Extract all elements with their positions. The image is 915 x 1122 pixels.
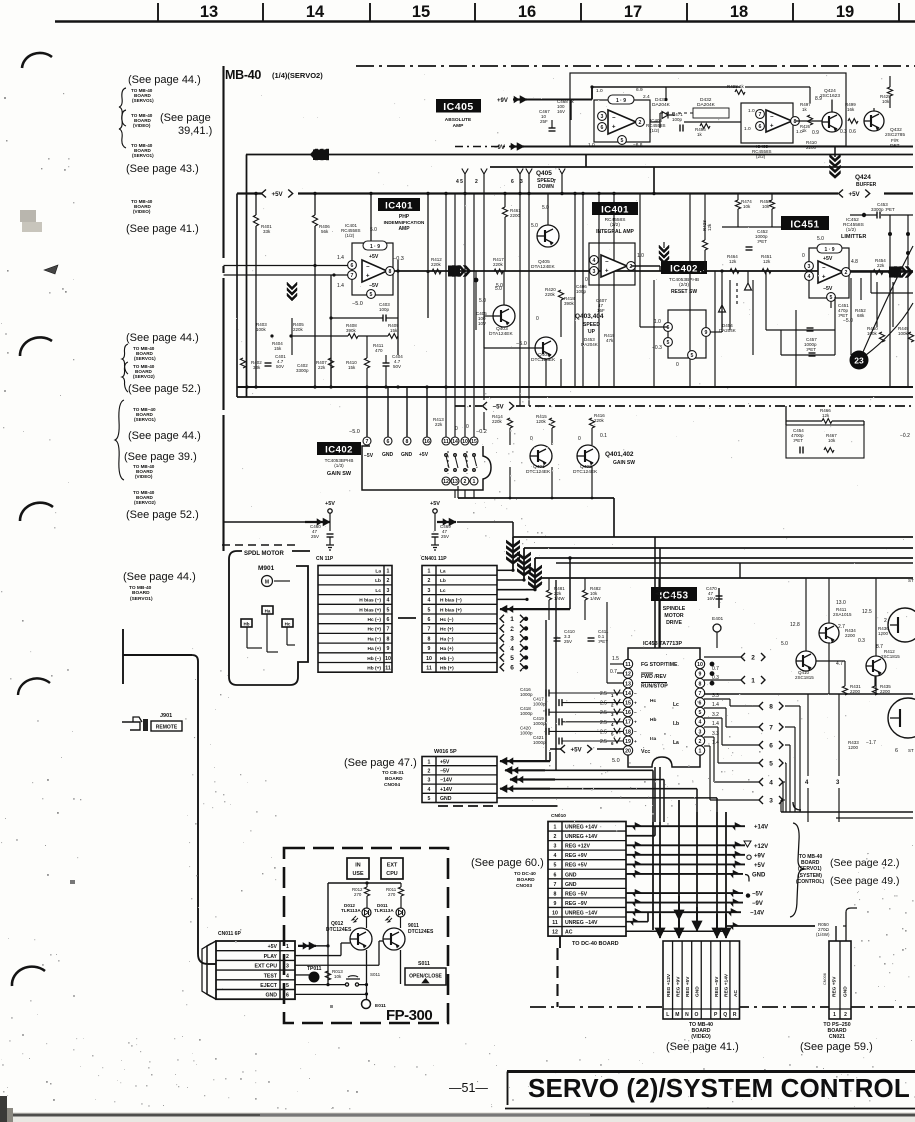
svg-text:6: 6 [387, 617, 390, 623]
svg-text:DTA124EK: DTA124EK [489, 331, 513, 337]
svg-text:5.0: 5.0 [612, 758, 620, 764]
wire line3 top [490, 166, 913, 168]
wire CN010 row11 jog [626, 921, 648, 923]
svg-text:Hb: Hb [650, 717, 656, 723]
svg-text:13: 13 [200, 3, 218, 21]
svg-text:1200: 1200 [878, 631, 889, 636]
svg-text:220k: 220k [293, 327, 304, 332]
svg-text:GND: GND [752, 872, 766, 878]
svg-text:+: + [634, 721, 637, 726]
svg-text:E401: E401 [712, 616, 724, 622]
wire right stub y522 [457, 521, 513, 523]
svg-text:EXT: EXT [387, 863, 398, 869]
svg-text:DET: DET [890, 143, 900, 149]
wire v659 [658, 578, 660, 588]
svg-text:1000p: 1000p [520, 711, 533, 716]
svg-text:7: 7 [554, 882, 557, 888]
svg-text:−0.2: −0.2 [900, 433, 910, 439]
svg-text:2: 2 [464, 479, 467, 485]
svg-text:(See page: (See page [160, 112, 211, 124]
junction dots row [270, 334, 273, 337]
svg-text:SPINDLE: SPINDLE [663, 606, 686, 612]
bus rail B [524, 547, 913, 549]
circled 23 badge [850, 351, 869, 370]
scan arc 2 [20, 337, 52, 356]
svg-text:IC401: IC401 [385, 201, 413, 212]
connector CN021 block [829, 941, 851, 1019]
conn 3 stub [759, 796, 763, 804]
conn node 1 [500, 615, 504, 623]
wire x330 down [327, 946, 329, 985]
svg-text:L: L [666, 1012, 669, 1018]
IC401 label [378, 198, 420, 211]
svg-text:−5V: −5V [493, 403, 505, 410]
conn node 3 [500, 634, 504, 642]
svg-text:1000p: 1000p [533, 702, 546, 707]
svg-text:4: 4 [428, 598, 431, 604]
svg-text:+: + [634, 740, 637, 745]
svg-text:4: 4 [554, 853, 557, 859]
wire into integral [663, 242, 665, 248]
big transistor right b [888, 698, 915, 738]
svg-text:1000p: 1000p [533, 721, 546, 726]
bottom left corner smudge [0, 1096, 7, 1122]
wire 4 stub [807, 694, 809, 776]
hall sensor Hc [282, 619, 293, 627]
svg-text:2SC2785: 2SC2785 [885, 132, 905, 138]
svg-text:REG +14V: REG +14V [723, 973, 729, 997]
svg-text:1: 1 [387, 569, 390, 575]
svg-text:+5V: +5V [440, 759, 450, 765]
svg-text:IC402: IC402 [670, 264, 698, 275]
right cluster wires [805, 578, 807, 651]
op-amp IC451 box [809, 248, 849, 298]
svg-text:1.0: 1.0 [744, 126, 751, 132]
rail mid 694 [704, 693, 913, 695]
svg-text:TO DC-40 BOARD: TO DC-40 BOARD [572, 941, 619, 947]
svg-text:270: 270 [388, 892, 396, 897]
svg-text:18: 18 [730, 3, 748, 21]
svg-text:6.9: 6.9 [636, 87, 643, 93]
svg-text:M: M [265, 580, 269, 586]
svg-text:(1/2): (1/2) [846, 227, 856, 233]
svg-text:M: M [675, 1012, 679, 1018]
svg-text:2: 2 [387, 578, 390, 584]
svg-text:2200: 2200 [664, 593, 675, 598]
svg-text:(1/2): (1/2) [345, 233, 355, 238]
svg-text:+14V: +14V [754, 825, 768, 831]
svg-text:−: − [634, 711, 637, 716]
conn node 2 [500, 625, 504, 633]
svg-text:IC402: IC402 [325, 445, 353, 456]
svg-text:2: 2 [639, 120, 642, 126]
svg-text:BOARD: BOARD [385, 776, 403, 782]
svg-text:2.5: 2.5 [600, 720, 607, 726]
board border top [356, 65, 915, 67]
svg-text:220k: 220k [492, 419, 503, 424]
svg-text:22k: 22k [318, 365, 326, 370]
wire row5 switch [295, 984, 346, 986]
scan speck c [70, 880, 75, 884]
svg-text:H bias (+): H bias (+) [359, 607, 381, 613]
wire Q403 to Q404 [484, 315, 493, 317]
gain sw dashed links [447, 451, 449, 474]
svg-text:GND: GND [565, 872, 577, 878]
svg-text:8: 8 [699, 681, 702, 687]
svg-text:−5V: −5V [364, 453, 374, 459]
scan noise field [585, 1037, 586, 1038]
svg-text:1.0: 1.0 [588, 142, 595, 148]
svg-text:15k: 15k [390, 328, 398, 333]
svg-text:Hc: Hc [285, 622, 291, 627]
border step at W016 [438, 805, 500, 807]
svg-text:Hc (+): Hc (+) [440, 627, 454, 633]
+5V bracket IC453 [561, 745, 566, 753]
svg-text:0: 0 [455, 426, 458, 432]
rail B drop [523, 548, 525, 580]
svg-text:6: 6 [699, 701, 702, 707]
wire to CN021 [726, 925, 815, 927]
svg-text:CN010: CN010 [551, 813, 566, 819]
svg-text:19: 19 [836, 3, 854, 21]
svg-text:2200: 2200 [806, 145, 817, 150]
svg-text:DA204K: DA204K [697, 102, 716, 108]
bottom rail 2 [237, 396, 913, 398]
svg-text:DA204K: DA204K [652, 102, 671, 108]
svg-text:0: 0 [466, 424, 469, 430]
fp q outputs [366, 950, 368, 994]
svg-text:2: 2 [286, 954, 289, 960]
svg-text:2.4: 2.4 [643, 94, 650, 100]
svg-text:7: 7 [769, 724, 773, 731]
resistor R401 [253, 215, 258, 226]
svg-text:16k: 16k [847, 107, 855, 112]
svg-text:0.3: 0.3 [840, 129, 847, 135]
hall wires [246, 627, 248, 648]
svg-text:+5V: +5V [272, 191, 284, 198]
svg-text:10k: 10k [743, 204, 751, 209]
rail C drop [534, 558, 536, 590]
svg-text:S011: S011 [370, 972, 381, 977]
wire top interconnects [665, 87, 667, 100]
speed down drop wires [462, 169, 468, 175]
svg-text:6: 6 [511, 179, 514, 185]
conn node 4 [500, 644, 504, 652]
svg-text:BOARD: BOARD [132, 590, 150, 596]
svg-text:15k: 15k [274, 346, 282, 351]
svg-text:ST: ST [908, 578, 914, 583]
svg-text:+: + [822, 275, 826, 281]
svg-text:5.0: 5.0 [781, 641, 788, 647]
svg-text:6: 6 [428, 617, 431, 623]
svg-text:2200: 2200 [850, 689, 861, 694]
IC401 integral label [592, 202, 638, 215]
svg-text:9: 9 [699, 672, 702, 678]
wire v331 [330, 275, 332, 387]
connector CN 11P table [318, 566, 392, 673]
svg-text:(See page 44.): (See page 44.) [123, 571, 196, 583]
svg-text:O: O [695, 1012, 699, 1018]
svg-text:1: 1 [473, 479, 476, 485]
SPDL motor label [242, 547, 292, 555]
svg-text:1.0: 1.0 [748, 108, 755, 114]
wire pin6 line [224, 265, 349, 267]
wire CN010 row 5 [626, 863, 745, 865]
svg-text:Q: Q [723, 1012, 727, 1018]
svg-text:3: 3 [510, 636, 514, 643]
gain sw pins bottom [442, 477, 450, 485]
wire from border y522 [224, 521, 308, 523]
svg-text:DTA124EK: DTA124EK [531, 264, 555, 270]
svg-text:1: 1 [554, 825, 557, 831]
wire left drop [246, 155, 248, 398]
svg-text:UNREG −14V: UNREG −14V [565, 910, 598, 916]
svg-text:ST: ST [908, 748, 914, 753]
top ruler line [55, 20, 915, 22]
svg-text:13: 13 [452, 479, 458, 485]
svg-text:GND: GND [440, 796, 452, 802]
svg-text:+5V: +5V [419, 452, 429, 458]
svg-text:W016 5P: W016 5P [434, 749, 457, 755]
svg-text:8: 8 [387, 636, 390, 642]
scan arc 3 [20, 503, 53, 521]
wire CN010 row 3 [626, 844, 745, 846]
svg-text:3: 3 [428, 778, 431, 784]
svg-text:(CONTROL): (CONTROL) [796, 879, 824, 885]
hall sensor Hb [241, 619, 252, 627]
svg-text::PET: :PET [806, 347, 816, 352]
net symbol row3 triangle [744, 841, 751, 847]
svg-text:+: + [612, 125, 616, 131]
svg-text:3: 3 [601, 114, 604, 120]
wire row3 to Q011 base [295, 964, 379, 966]
wire v546 ladder [545, 620, 547, 760]
svg-text:USE: USE [352, 871, 363, 877]
svg-text:20: 20 [625, 749, 631, 755]
svg-text:4: 4 [286, 973, 289, 979]
IC405 label [436, 99, 481, 113]
svg-text:14: 14 [306, 3, 325, 21]
svg-text:10: 10 [462, 439, 468, 445]
svg-text:4 5: 4 5 [456, 179, 463, 185]
svg-text:10k: 10k [882, 99, 890, 104]
svg-text:3: 3 [520, 179, 523, 185]
wire v529 below bus [528, 194, 530, 407]
svg-text:TEST: TEST [264, 973, 278, 979]
svg-text:BOARD: BOARD [517, 877, 535, 883]
svg-text:H bias (−): H bias (−) [359, 598, 381, 604]
svg-text:5: 5 [667, 340, 670, 346]
svg-text:7: 7 [553, 179, 556, 185]
svg-text:+9V: +9V [497, 98, 508, 104]
wire v484 below bus [483, 194, 485, 431]
connector W016 table [422, 757, 497, 803]
vertical wires columns mid [574, 194, 576, 388]
rail y818 right [836, 817, 913, 819]
svg-text:1200: 1200 [848, 745, 859, 750]
svg-text:−9V: −9V [752, 901, 763, 907]
svg-text:(SERVO1): (SERVO1) [798, 866, 822, 872]
title separator [505, 1108, 915, 1110]
svg-text:La: La [375, 569, 381, 575]
svg-text:CN021: CN021 [829, 1034, 845, 1040]
svg-text:25V: 25V [311, 534, 319, 539]
svg-text:+14V: +14V [440, 787, 453, 793]
brace 4 [122, 362, 128, 392]
svg-text:220k: 220k [431, 262, 442, 267]
svg-text:4.7: 4.7 [836, 661, 843, 667]
svg-text:8.7: 8.7 [876, 644, 883, 650]
conn 4 stub [759, 778, 763, 786]
svg-text:2SA1015: 2SA1015 [833, 612, 852, 617]
svg-text:+5V: +5V [849, 191, 861, 198]
svg-text:2200: 2200 [880, 689, 891, 694]
svg-text:(SERVO2): (SERVO2) [133, 374, 155, 379]
svg-text:−5.0: −5.0 [349, 429, 360, 435]
svg-text:1: 1 [751, 677, 755, 684]
svg-text:7: 7 [699, 691, 702, 697]
terminal E011 [362, 1000, 371, 1009]
wire 3 stub [838, 694, 840, 776]
C454 R467 box [786, 425, 864, 458]
svg-text:12: 12 [552, 930, 558, 936]
fg wires left [610, 663, 624, 665]
board border left [222, 66, 224, 258]
svg-text:(VIDEO): (VIDEO) [135, 474, 153, 479]
svg-text:−5V: −5V [823, 286, 833, 292]
IC402 gain label [317, 442, 361, 455]
svg-text:+5V: +5V [754, 863, 765, 869]
svg-text:2.5: 2.5 [600, 701, 607, 707]
svg-text:5: 5 [387, 607, 390, 613]
verticals from IC453 down [654, 767, 656, 822]
wire row2 to Q012 base [295, 955, 341, 957]
svg-text:2: 2 [428, 578, 431, 584]
svg-text:−5.0: −5.0 [843, 318, 853, 324]
svg-text:5: 5 [286, 983, 289, 989]
svg-text:DTC124ES: DTC124ES [408, 929, 434, 935]
svg-text:REG +5V: REG +5V [565, 863, 588, 869]
conn node 6 [500, 663, 504, 671]
svg-text:DRIVE: DRIVE [666, 620, 682, 626]
wire row1 to fp [316, 945, 328, 947]
wire v655 upper [654, 537, 656, 648]
svg-text:−14V: −14V [440, 778, 453, 784]
svg-text:16: 16 [625, 710, 631, 716]
wire mid h336 [292, 335, 348, 337]
svg-text:MOTOR: MOTOR [664, 613, 683, 619]
svg-text:7: 7 [387, 627, 390, 633]
svg-text:2.5: 2.5 [600, 739, 607, 745]
svg-text:+5V: +5V [369, 254, 379, 260]
svg-text:6: 6 [554, 872, 557, 878]
wire opamp2 out [631, 265, 660, 267]
svg-text:5: 5 [621, 138, 624, 144]
svg-text:12.8: 12.8 [790, 622, 800, 628]
wire v890 right [889, 215, 891, 387]
svg-text:1: 1 [510, 616, 514, 623]
svg-text:LIMITTER: LIMITTER [841, 234, 866, 240]
svg-text:Lc: Lc [375, 588, 381, 594]
conn 2 stub [741, 653, 745, 661]
scan speck b [44, 265, 58, 274]
svg-text:3: 3 [769, 797, 773, 804]
rail A drop [512, 537, 514, 570]
svg-text:−: − [770, 115, 774, 121]
svg-text:390k: 390k [346, 328, 357, 333]
svg-text:39,41.): 39,41.) [178, 125, 212, 137]
brace 3 [122, 344, 128, 374]
svg-text:6: 6 [667, 325, 670, 331]
transistor Q011 [383, 928, 405, 950]
page edge shading bottom [0, 1112, 915, 1122]
svg-text:Lc: Lc [673, 702, 679, 708]
transistor Q405d [537, 225, 559, 247]
svg-text:Ha (+): Ha (+) [368, 646, 382, 652]
svg-text:50V: 50V [393, 364, 401, 369]
-5V dash rail [455, 405, 913, 407]
svg-text:H bias (−): H bias (−) [440, 598, 462, 604]
wire op-amp out [394, 270, 913, 272]
svg-text:1 · 9: 1 · 9 [370, 244, 380, 250]
svg-text:3300p :PET: 3300p :PET [871, 207, 895, 212]
svg-text:Hb (−): Hb (−) [367, 656, 381, 662]
svg-text:AMP: AMP [398, 226, 410, 232]
svg-text:Hb (+): Hb (+) [367, 666, 381, 672]
svg-text:6: 6 [769, 742, 773, 749]
op-amp IC451 [818, 261, 843, 283]
svg-text:23: 23 [854, 356, 864, 366]
wire CN010 row 6 [626, 873, 743, 875]
svg-text:Hc: Hc [650, 698, 656, 704]
svg-text:REG +5V: REG +5V [685, 976, 691, 997]
net symbol row6 hook [745, 875, 749, 882]
wire h227 [722, 226, 796, 228]
svg-text:5: 5 [554, 863, 557, 869]
transistor Q411 [819, 623, 839, 643]
gain sw internal switches [445, 454, 448, 457]
wire return line with chevrons [246, 154, 913, 156]
svg-text:15k: 15k [348, 365, 356, 370]
svg-text:(See page 39.): (See page 39.) [124, 451, 197, 463]
svg-text:5: 5 [428, 796, 431, 802]
gain sw pins top [363, 437, 371, 445]
vertical wires into gain sw [366, 387, 368, 441]
svg-text:2200: 2200 [510, 213, 521, 218]
J901 wire bracket [122, 629, 124, 684]
svg-text:AC: AC [565, 930, 573, 936]
svg-text:6: 6 [387, 439, 390, 445]
conn 1 stub [741, 676, 745, 684]
svg-text:Lb: Lb [673, 721, 679, 727]
svg-text:(See page 52.): (See page 52.) [128, 383, 201, 395]
bus rail A [513, 536, 913, 538]
svg-text:0.6: 0.6 [849, 129, 856, 135]
junction dot below arrow [474, 278, 479, 283]
svg-text:50V: 50V [276, 364, 284, 369]
svg-text:4: 4 [428, 787, 431, 793]
svg-text:GND: GND [401, 452, 413, 458]
svg-text:La: La [673, 740, 679, 746]
svg-text:0.3: 0.3 [858, 638, 865, 644]
transistor Q403 [493, 305, 515, 327]
svg-text:DTC124EK: DTC124EK [573, 469, 598, 475]
svg-text:1.0: 1.0 [637, 253, 644, 259]
svg-text:REG +12V: REG +12V [565, 844, 590, 850]
fp top wire [328, 882, 401, 884]
wires v446-474 up [445, 194, 447, 438]
svg-text:2: 2 [428, 769, 431, 775]
